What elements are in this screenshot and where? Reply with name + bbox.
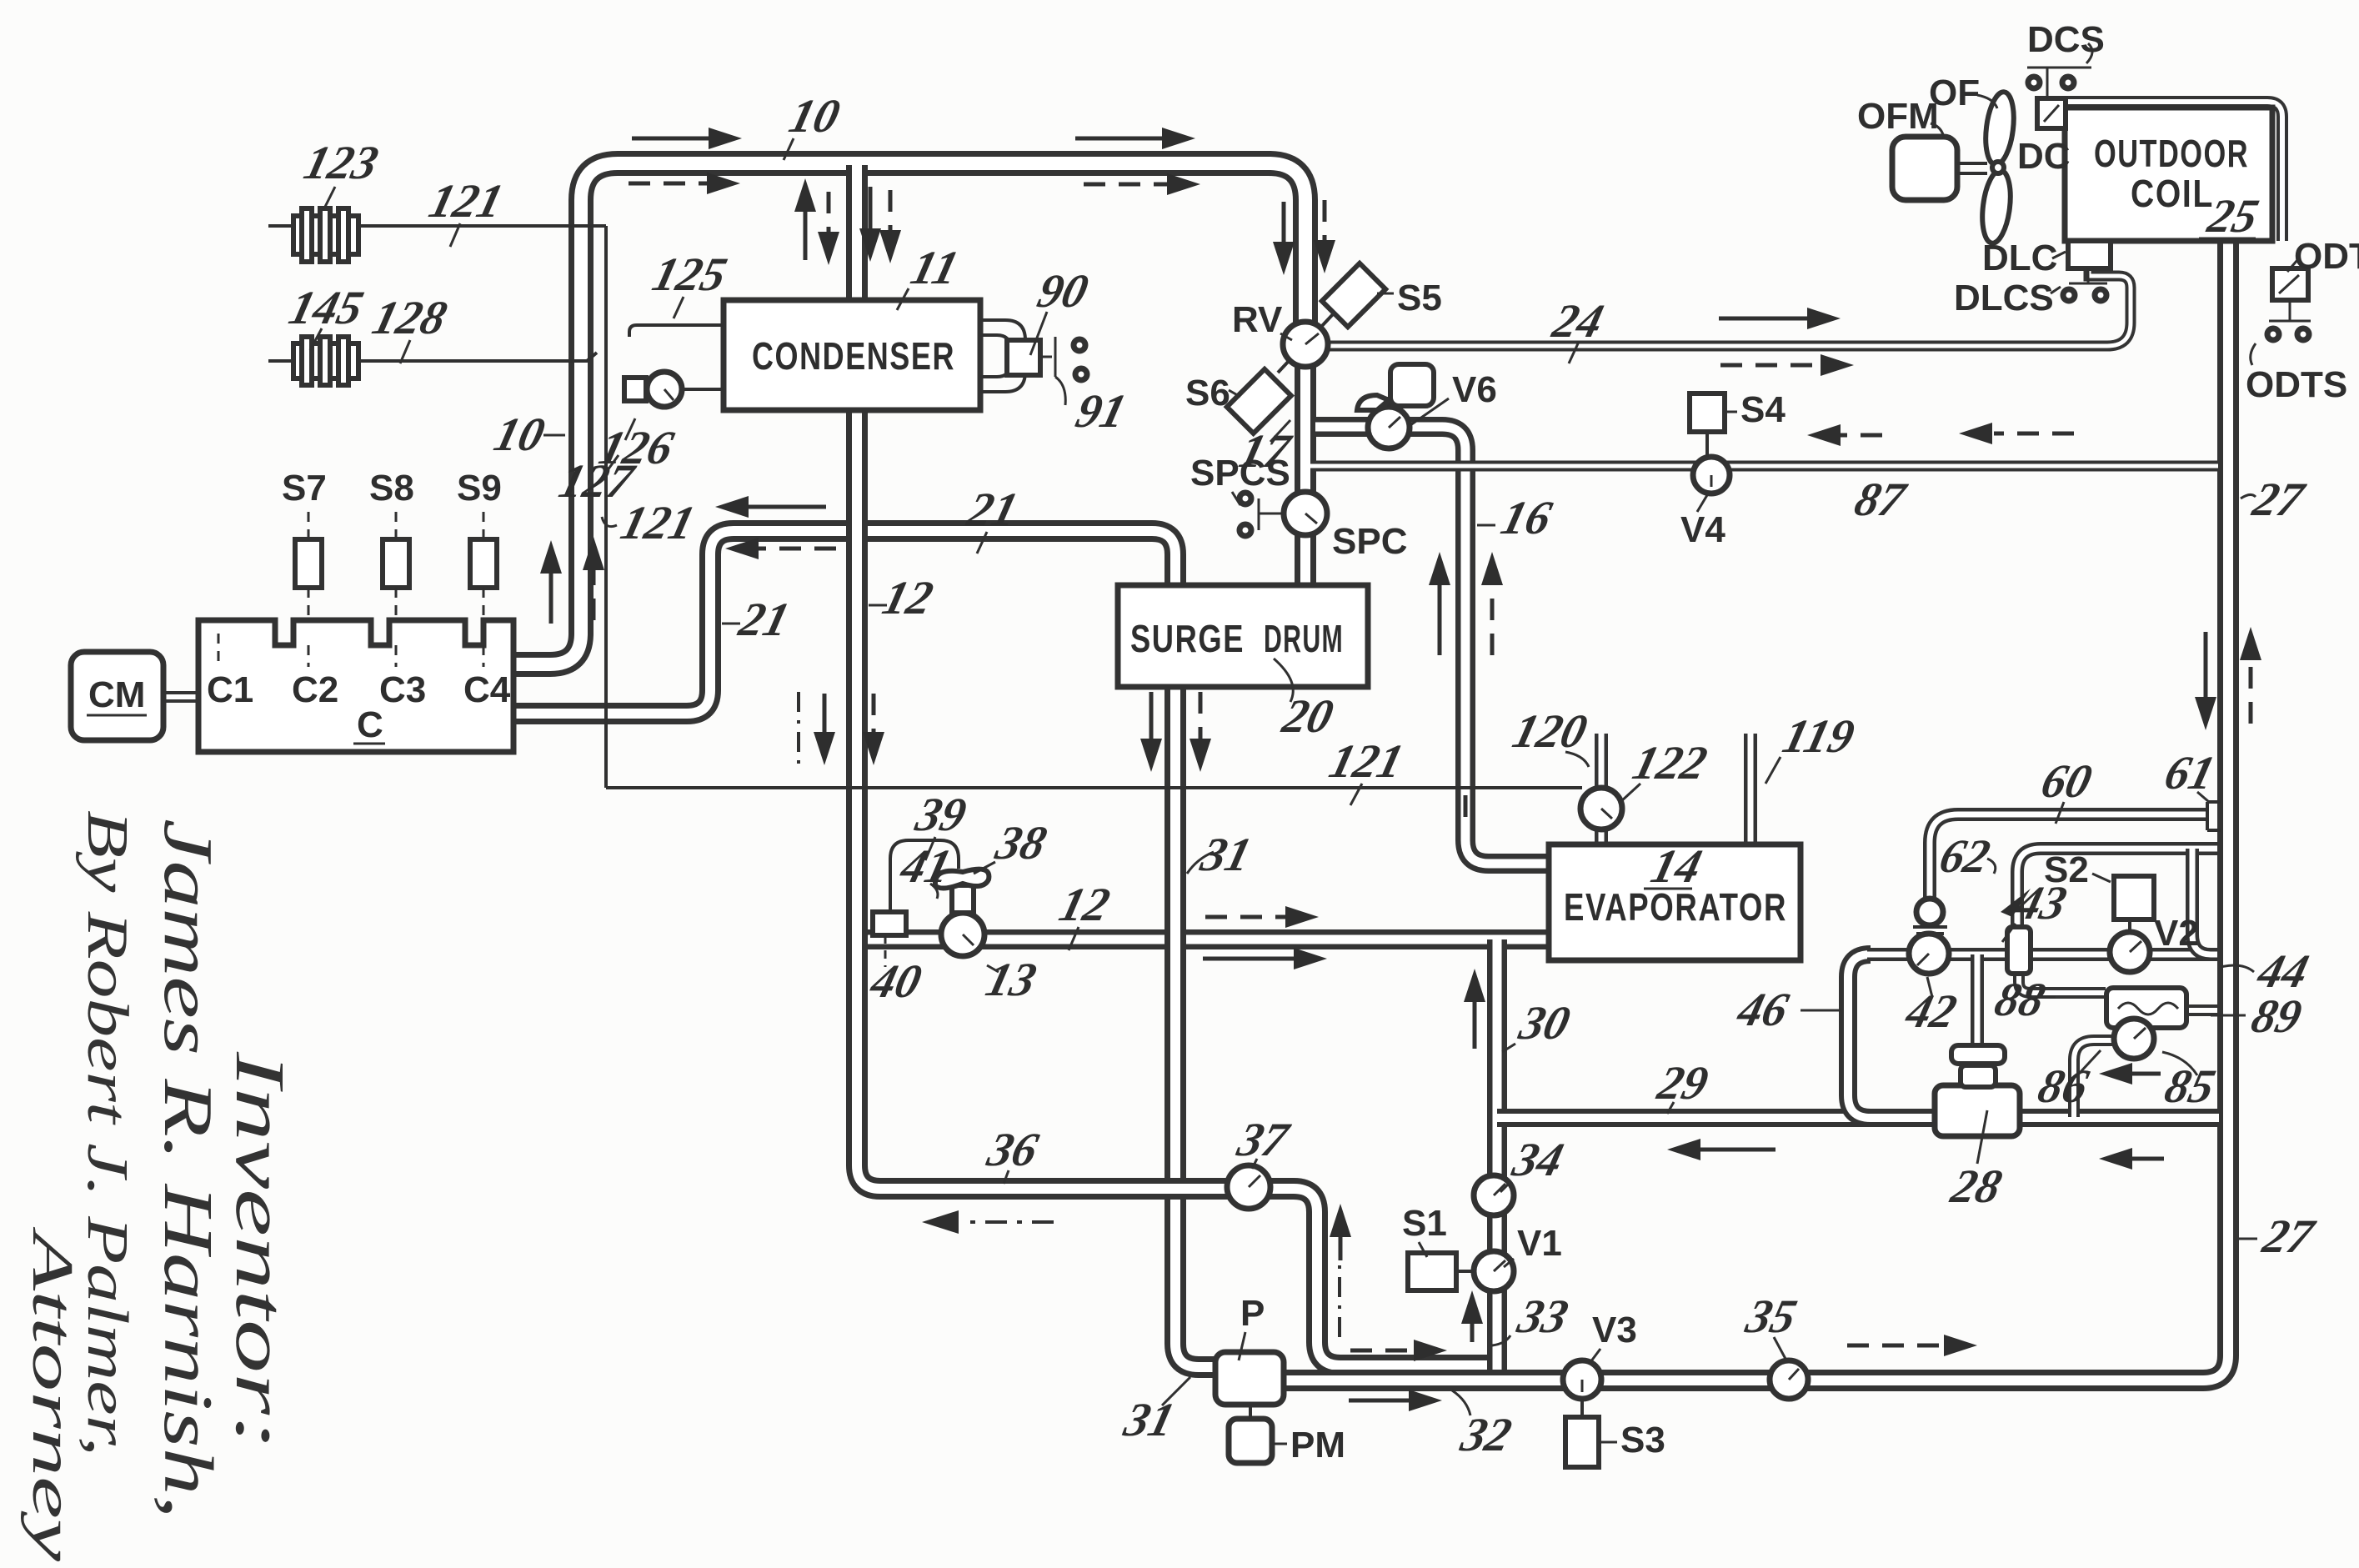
label 145 xyxy=(284,281,368,350)
label 46 xyxy=(1732,983,1841,1036)
fan OF blades xyxy=(1979,90,2017,244)
compressor C block xyxy=(198,620,513,752)
wire line 121 vertical xyxy=(604,226,608,788)
label OUTDOOR COIL xyxy=(2094,132,2249,215)
wire pipe 62 inner loop xyxy=(2017,849,2217,927)
label 121 top xyxy=(424,174,508,247)
label 88 xyxy=(1990,973,2056,1026)
arrow right dashed above line 12 xyxy=(1205,906,1319,928)
svg-text:Inventor:: Inventor: xyxy=(221,1050,298,1450)
ODTS contacts xyxy=(2251,300,2311,365)
svg-text:SPC: SPC xyxy=(1332,521,1407,562)
wire pipe 119 vent xyxy=(1744,734,1757,845)
svg-text:CM: CM xyxy=(88,674,145,715)
arrow up solid left of pipe 33 xyxy=(1461,1290,1483,1342)
label OF xyxy=(1929,73,1997,113)
label SPC xyxy=(1332,521,1407,562)
svg-text:S3: S3 xyxy=(1620,1420,1665,1460)
label S5 xyxy=(1377,278,1442,318)
motor CM xyxy=(71,652,163,740)
label 42 xyxy=(1901,977,1962,1038)
label 89 xyxy=(2211,989,2307,1043)
svg-text:128: 128 xyxy=(368,291,453,344)
svg-text:123: 123 xyxy=(299,136,383,189)
label DLCS xyxy=(1954,278,2061,318)
wire pipe 21 suction line xyxy=(513,531,1175,714)
svg-text:DC: DC xyxy=(2017,136,2071,177)
arrow dashdot vertical pump loop xyxy=(1338,1265,1341,1337)
label S4 xyxy=(1725,389,1786,430)
label 36 xyxy=(982,1123,1044,1184)
label C2 xyxy=(292,669,338,710)
label 30 xyxy=(1502,996,1575,1052)
svg-text:C1: C1 xyxy=(207,669,253,710)
svg-text:CONDENSER: CONDENSER xyxy=(752,334,955,378)
arrow up dashed right of pipe 16 xyxy=(1481,552,1503,655)
pilot valve SPC xyxy=(1284,492,1327,535)
subcooler coil 89 box xyxy=(2106,988,2186,1028)
arrow flow dashed below pipe 10 left xyxy=(629,173,740,194)
label 87 xyxy=(1850,473,1912,526)
label 61 xyxy=(2160,746,2221,802)
arrow right dashed above pipe 32 xyxy=(1350,1340,1447,1361)
arrow left dashdot below pipe 36 xyxy=(922,1210,1054,1234)
wire pipe 12 horizontal to evaporator xyxy=(847,929,1549,949)
reversing valve RV xyxy=(1283,322,1328,367)
pressure switch 90 box xyxy=(1007,340,1040,375)
svg-text:EVAPORATOR: EVAPORATOR xyxy=(1564,885,1787,929)
arrow up dashed on pipe 21 riser xyxy=(583,537,604,620)
cylinder C4 stem xyxy=(483,645,485,667)
arrow left solid below 28 xyxy=(2099,1063,2161,1085)
svg-text:SURGE: SURGE xyxy=(1130,617,1245,660)
arrow down solid on pipe 12 xyxy=(814,694,835,765)
wire line 121 horizontal to valve 122 xyxy=(606,786,1582,789)
label V3 xyxy=(1590,1310,1637,1362)
arrow up dashed right of pipe 27 xyxy=(2240,627,2261,724)
solenoid S9 box xyxy=(470,510,497,620)
DC damper box xyxy=(2037,98,2066,128)
label CM underlined xyxy=(87,674,147,715)
wire pipe RV to surge drum xyxy=(1295,365,1316,584)
label V4 xyxy=(1680,495,1725,550)
label 13 xyxy=(981,953,1042,1006)
label 44 xyxy=(2221,944,2314,998)
arrow up solid left of pipe 30 xyxy=(1464,969,1485,1049)
condenser outlet tubes to fitting 90 xyxy=(980,320,1025,392)
svg-text:OFM: OFM xyxy=(1857,96,1939,137)
arrow left solid above line 21 xyxy=(715,496,826,518)
label ODT xyxy=(2287,236,2359,277)
label 128 xyxy=(368,291,453,363)
svg-text:DCS: DCS xyxy=(2027,19,2105,60)
svg-text:RV: RV xyxy=(1232,299,1283,340)
signature By Robert J Palmer xyxy=(75,810,139,1456)
svg-text:Attorney: Attorney xyxy=(20,1226,84,1562)
SPCS contacts xyxy=(1240,493,1284,536)
label 20 xyxy=(1274,659,1339,743)
label 35 xyxy=(1740,1290,1802,1359)
label 33 xyxy=(1492,1290,1574,1345)
wire pipe 11 condenser feed drop xyxy=(846,165,868,302)
svg-text:S6: S6 xyxy=(1185,373,1230,413)
label PM xyxy=(1272,1425,1345,1465)
label 127 xyxy=(554,454,640,508)
valve stem and handle 38 xyxy=(935,869,989,913)
label 21 mid xyxy=(722,593,795,646)
label EVAPORATOR xyxy=(1564,885,1787,929)
svg-text:122: 122 xyxy=(1628,736,1712,789)
arrow flow right above pipe 10 left xyxy=(632,128,742,149)
label 31 upper xyxy=(1187,828,1257,881)
label 85 xyxy=(2160,1052,2221,1113)
label S9 xyxy=(457,468,502,508)
label 29 xyxy=(1652,1056,1714,1114)
DLCS contacts xyxy=(2063,268,2107,301)
label 62 xyxy=(1935,829,1996,883)
svg-text:James R. Harnish,: James R. Harnish, xyxy=(149,819,227,1519)
label C3 xyxy=(379,669,426,710)
arrow down solid right of condenser drop xyxy=(859,187,881,262)
svg-text:P: P xyxy=(1240,1293,1265,1334)
wire pipe 42 drop to flange of 28 xyxy=(1971,954,1984,1047)
label SPCS xyxy=(1190,453,1290,505)
label 27 top xyxy=(2241,473,2311,526)
label 10 top xyxy=(784,89,845,160)
signature Inventor xyxy=(221,1050,298,1450)
wire pipe 31 drum outlet to pump P xyxy=(1175,584,1219,1367)
arrow left dashed above line 87 right xyxy=(1959,423,2074,444)
condenser spur 125 xyxy=(629,325,724,337)
svg-text:121: 121 xyxy=(616,496,700,549)
valve 35 xyxy=(1770,1360,1808,1399)
svg-text:S7: S7 xyxy=(282,468,327,508)
fitting 127 box xyxy=(624,378,646,401)
label 17 xyxy=(1235,420,1297,478)
label P xyxy=(1239,1293,1265,1360)
label 24 xyxy=(1547,294,1609,363)
label S6 xyxy=(1185,373,1240,413)
label S8 xyxy=(369,468,414,508)
label 39 xyxy=(910,788,972,860)
label 38 xyxy=(974,816,1052,874)
label V6 xyxy=(1410,369,1497,425)
solenoid S4 box xyxy=(1690,393,1725,432)
label 121 mid xyxy=(602,496,700,549)
arrow down solid below surge drum xyxy=(1140,692,1162,772)
wire pipe 12 condenser outlet vertical xyxy=(846,410,868,940)
label 123 xyxy=(299,136,383,210)
label S7 xyxy=(282,468,327,508)
valve V3 xyxy=(1563,1360,1601,1399)
svg-text:119: 119 xyxy=(1778,709,1860,763)
outdoor coil box xyxy=(2065,108,2272,241)
arrow left dashed below line 21 xyxy=(725,538,836,559)
pump P box xyxy=(1215,1352,1284,1405)
svg-text:DRUM: DRUM xyxy=(1264,617,1344,660)
arrow right solid above line 24 xyxy=(1719,308,1841,329)
wire pipe 44 subcooler line through valves 42 43 V2 xyxy=(1867,948,2217,961)
fan motor OFM xyxy=(1892,137,1987,200)
pilot arch 41 xyxy=(890,840,959,912)
valve V1 xyxy=(1474,1251,1514,1291)
label 16 xyxy=(1477,491,1557,544)
valve 126 xyxy=(646,372,724,407)
label S1 xyxy=(1402,1203,1447,1257)
label S2 xyxy=(2044,849,2111,890)
svg-text:OUTDOOR: OUTDOOR xyxy=(2094,132,2249,175)
wire line 121 from coil 123 xyxy=(268,224,606,228)
wire pipe valve 122 to evaporator xyxy=(1595,829,1608,845)
svg-text:PM: PM xyxy=(1290,1425,1345,1465)
valve V2 xyxy=(2110,919,2150,972)
condenser box xyxy=(724,300,980,410)
label 125 xyxy=(648,248,732,318)
label 126 xyxy=(594,418,679,474)
wire pipe 88 to subcooler coil xyxy=(2019,974,2106,993)
cylinder C2 stem xyxy=(308,645,310,667)
label 21 upper xyxy=(962,483,1024,554)
label 120 xyxy=(1508,704,1592,767)
wire pipe outdoor coil top xyxy=(2066,102,2282,241)
signature James R Harnish xyxy=(149,819,227,1519)
svg-text:S4: S4 xyxy=(1740,389,1786,430)
wire pipe 87 xyxy=(1310,461,2218,472)
label DC xyxy=(2017,136,2071,177)
expansion valve 122 xyxy=(1580,788,1622,829)
arrow right solid below pipe 32 xyxy=(1349,1390,1442,1411)
label S3 xyxy=(1599,1420,1665,1460)
label 32 xyxy=(1452,1390,1517,1461)
label 25 underlined xyxy=(2199,189,2264,243)
surge drum box xyxy=(1118,585,1368,687)
label 11 xyxy=(897,241,964,310)
valve V4 xyxy=(1693,432,1730,493)
svg-text:121: 121 xyxy=(424,174,508,228)
fitting 61 xyxy=(2207,802,2221,830)
label 86 xyxy=(2033,1050,2101,1113)
wire line 128 from coil 145 xyxy=(268,353,597,361)
arrow up solid in pump loop xyxy=(1330,1204,1351,1260)
wire pipe 36 lower loop to pump circuit xyxy=(857,929,1494,1365)
fitting 40 box xyxy=(873,912,906,967)
label 12 lower xyxy=(1054,878,1115,950)
label 41 xyxy=(895,839,957,899)
arrow up solid at condenser drop xyxy=(794,178,816,260)
svg-text:C3: C3 xyxy=(379,669,426,710)
label RV xyxy=(1232,299,1292,340)
wire pipe 24 reversing line to DLC xyxy=(1325,268,2131,346)
arrow down dashed on pipe 12 xyxy=(863,694,884,765)
svg-text:DLCS: DLCS xyxy=(1954,278,2054,318)
pump motor PM box xyxy=(1229,1405,1272,1463)
valve V6 xyxy=(1357,364,1434,448)
arrow down dashed below surge drum xyxy=(1190,692,1211,772)
label 121 right xyxy=(1325,734,1409,805)
arrow up solid on pipe 21 riser xyxy=(540,540,562,624)
wire pipe CM shaft xyxy=(163,691,200,703)
label 90 xyxy=(1030,264,1094,355)
svg-text:ODT: ODT xyxy=(2294,236,2359,277)
solenoid S1 box xyxy=(1408,1253,1474,1290)
label DCS xyxy=(2027,19,2105,60)
arrow flow right above pipe 10 right xyxy=(1075,128,1195,149)
expansion valve 42 xyxy=(1909,899,1949,974)
label DLC xyxy=(1982,238,2066,278)
wire pipe 29 right segment xyxy=(2021,1109,2219,1127)
label 91 xyxy=(1071,384,1132,438)
label 122 xyxy=(1620,736,1712,802)
svg-text:C2: C2 xyxy=(292,669,338,710)
svg-text:S9: S9 xyxy=(457,468,502,508)
cylinder C3 stem xyxy=(395,645,398,667)
label C1 xyxy=(207,669,253,710)
label 10 left xyxy=(489,408,565,461)
label 119 xyxy=(1765,709,1860,784)
label 60 xyxy=(2036,754,2097,824)
arrow up dashed on line 16 lower xyxy=(1464,784,1468,817)
svg-text:V2: V2 xyxy=(2154,913,2199,954)
wire pipe 60 outer loop xyxy=(1930,814,2207,899)
switch 91 contacts xyxy=(1040,337,1087,405)
valve 13 xyxy=(941,913,984,956)
label 37 xyxy=(1232,1113,1295,1169)
label 31 lower xyxy=(1119,1377,1190,1446)
svg-text:ODTS: ODTS xyxy=(2246,364,2347,405)
arrow flow dashed below pipe 10 right xyxy=(1084,173,1200,195)
label 43 xyxy=(2001,876,2072,942)
svg-text:SPCS: SPCS xyxy=(1190,453,1290,493)
svg-text:125: 125 xyxy=(648,248,732,301)
wire pipe 46 xyxy=(1848,954,1871,1118)
arrow down dashed at condenser drop xyxy=(818,192,839,265)
label 34 xyxy=(1500,1133,1569,1192)
solenoid S5 diamond xyxy=(1321,263,1385,327)
arrow down dashed right of condenser drop2 xyxy=(879,190,901,263)
valve 34 xyxy=(1474,1175,1514,1215)
wire pipe 29 left segment xyxy=(1497,1109,1934,1127)
label 40 xyxy=(865,954,927,1008)
arrow right dashed on line 35 xyxy=(1847,1335,1977,1356)
label C4 xyxy=(463,669,511,710)
svg-text:DLC: DLC xyxy=(1982,238,2057,278)
svg-text:V3: V3 xyxy=(1592,1310,1637,1350)
wire pipe 62 branch to V2 outlet xyxy=(2192,849,2211,954)
svg-text:S1: S1 xyxy=(1402,1203,1447,1244)
svg-text:145: 145 xyxy=(284,281,368,334)
arrow right dashed below line 24 xyxy=(1720,354,1854,376)
wire pipe 32 27 bottom and right riser xyxy=(1284,243,2228,1380)
economizer 28 box xyxy=(1935,1085,2020,1136)
wire pipe 30 33 vertical valve column xyxy=(1487,939,1507,1379)
coil 123 xyxy=(293,208,358,262)
label V2 xyxy=(2154,913,2199,954)
label OFM xyxy=(1857,96,1944,138)
solenoid S7 box xyxy=(295,510,322,620)
valve 37 xyxy=(1227,1165,1270,1209)
solenoid S3 box xyxy=(1565,1399,1599,1467)
wire pipe 120 stub above valve 122 xyxy=(1595,734,1608,789)
coil 145 xyxy=(293,337,358,385)
svg-text:121: 121 xyxy=(1325,734,1409,788)
evaporator box xyxy=(1549,844,1801,960)
arrow left solid below 29 right xyxy=(2099,1148,2164,1170)
valve 86 xyxy=(2114,1019,2154,1059)
label SURGE DRUM xyxy=(1130,617,1344,660)
svg-text:C: C xyxy=(357,704,383,745)
arrow up solid left of pipe 16 xyxy=(1429,552,1450,655)
label ODTS xyxy=(2246,364,2347,405)
label 14 underlined xyxy=(1644,839,1707,893)
svg-text:V1: V1 xyxy=(1517,1223,1562,1264)
label C underlined xyxy=(353,704,385,745)
signature Attorney xyxy=(20,1226,84,1562)
svg-text:COIL: COIL xyxy=(2131,172,2214,215)
wire pipe 89 coil to line 27 xyxy=(2187,1004,2217,1016)
DLC box xyxy=(2068,241,2111,268)
arrow right solid below line 12 xyxy=(1203,948,1327,969)
arrow dashdot line on pipe 12 xyxy=(797,692,800,765)
label 27 lower xyxy=(2239,1210,2321,1263)
solenoid S6 diamond xyxy=(1227,360,1291,433)
svg-text:V4: V4 xyxy=(1680,509,1725,550)
ODT box xyxy=(2272,268,2308,300)
arrow left solid below line 29 xyxy=(1667,1139,1776,1160)
solenoid S8 box xyxy=(383,510,409,620)
wire pipe 10 discharge loop xyxy=(513,163,1305,664)
svg-text:V6: V6 xyxy=(1452,369,1497,410)
cylinder C1 stem xyxy=(218,634,220,667)
svg-text:120: 120 xyxy=(1508,704,1592,758)
label CONDENSER xyxy=(752,334,955,378)
svg-text:C4: C4 xyxy=(463,669,511,710)
wire pipe 16 via valve V6 to evaporator xyxy=(1315,427,1549,864)
flange fitting above 28 xyxy=(1951,1045,2005,1087)
arrow down dashed into RV xyxy=(1314,200,1335,273)
label 28 xyxy=(1946,1110,2007,1213)
arrow down solid on pipe 27 xyxy=(2195,632,2216,730)
solenoid S2 box xyxy=(2114,876,2154,919)
wire pipe 86 outlet xyxy=(2074,1040,2116,1117)
fitting 43 xyxy=(2007,927,2031,974)
arrow down solid into RV xyxy=(1273,202,1295,275)
label 12 mid xyxy=(869,571,939,624)
DCS contacts xyxy=(2027,43,2092,98)
arrow left dashed above line 87 mid xyxy=(1807,424,1882,446)
label V1 xyxy=(1504,1223,1562,1267)
svg-text:S8: S8 xyxy=(369,468,414,508)
svg-text:S5: S5 xyxy=(1397,278,1442,318)
